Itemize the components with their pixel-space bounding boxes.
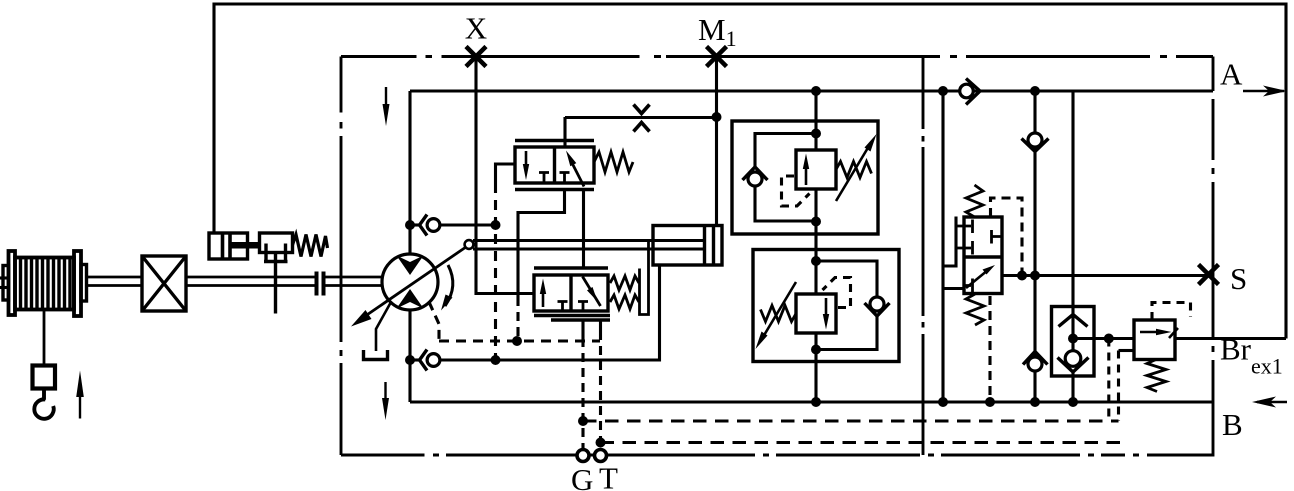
motor triangle bottom [397,289,424,309]
CB2 relief arrow [825,298,828,317]
junction lower check to B [1030,397,1040,407]
wire: motor A-side vertical [408,91,411,255]
wire: A to S vertical [1033,91,1036,133]
motor triangle top [397,256,424,276]
junction PV drain [985,397,995,407]
junction shuttle to B [1068,397,1078,407]
wire: V1 to V2 link [582,190,585,269]
PV drain dashed to B [988,296,991,402]
wire: T drain line (dashed) [601,441,1121,444]
shaft: drum to gearbox [87,276,143,279]
junction motor bottom [405,355,415,365]
check valve motor bottom: seat [420,350,428,371]
valve V1 spring [594,152,633,172]
enclosure: solid bottom-right corner [1160,402,1213,455]
reducing valve drain dashed [1117,351,1120,422]
check valve S-B: seat [1023,352,1048,365]
check valve motor top: seat [420,215,428,236]
PV pilot dashed [991,198,1023,276]
junction A to check column [1030,86,1040,96]
CB2 relief square [796,294,836,333]
brake shoe block [260,233,293,253]
junction pilot bottom [491,355,501,365]
shuttle check seat [1058,358,1089,373]
brake cylinder piston [221,233,225,259]
CB1 relief square [796,150,836,189]
valve V2 blocked port T left [558,302,568,312]
port G circle [577,450,589,462]
valve V1 top bar [515,139,594,142]
wire: M1 line [715,57,718,227]
CB1 relief arrow [805,166,808,185]
wire: V1 pilot dashed [494,183,497,360]
svg-text:B: B [1222,407,1243,442]
junction S to lower check [1030,271,1040,281]
wire: V1 pilot elbow [496,164,516,183]
enclosure: solid segment top right [1212,57,1215,92]
proportional valve body [964,217,1002,294]
arrow: flow down annotation lower [384,382,386,404]
enclosure: main valve block boundary bottom (dash-dot) [341,454,1213,457]
check valve on A line: ball [960,84,974,98]
wire: external brake-release loop top [214,4,1286,339]
reducing valve pilot dashed [1152,303,1191,321]
valve V2 spring lower [610,295,639,309]
valve V1 left position arrow [525,151,528,170]
winch drum body [15,258,74,310]
winch drum rope coils [21,258,71,310]
shaft: coupling to motor [325,276,383,279]
wire: motor bottom line to cylinder cap [440,265,660,360]
motor case drain left [376,302,391,351]
CB2 pilot dashed [823,278,851,308]
valve V2 left position arrow [542,288,545,307]
valve V1 body [515,147,594,183]
CB2 check branch wire [816,261,877,297]
junction reducing valve pilot [1104,334,1114,344]
hook block [33,366,56,389]
CB1 spring [836,162,872,178]
svg-text:X: X [465,11,487,46]
pilot sense dashed to G [1107,339,1110,422]
wire: shuttle internal vertical [1071,307,1074,358]
brake spring [293,235,328,257]
junction B-rail [938,397,948,407]
wire: main line through CB2 [814,333,817,402]
arrow: flow down annotation upper [385,87,387,110]
reducing valve drain elbow [1119,349,1135,352]
wire: V2 tank to T (dashed) [599,320,602,331]
brake push rod [229,242,261,249]
PV spring bottom [966,294,984,325]
valve V2 spring upper [610,276,639,290]
junction PV pilot on S line [1017,271,1027,281]
wire: right block rail [941,91,944,402]
wire: X pilot line [476,57,534,294]
valve V2 bottom bar 2 [551,318,610,321]
wire: S to B vertical [1033,276,1036,358]
coupling [315,272,319,296]
CB2 check seat [865,303,890,316]
rope to hook [43,310,46,366]
wire: V1 drain dashed [516,297,519,341]
wire: A line [410,89,1213,92]
junction motor top [405,220,415,230]
junction G branch [578,416,588,426]
valve V1 blocked port T right [560,173,570,184]
wire: G pilot line (dashed) [583,419,1119,422]
brake cylinder [209,233,248,259]
svg-text:G: G [571,462,593,491]
wire: throttle branch [565,116,717,119]
swash pivot circle [465,240,474,249]
winch drum flange right [74,251,81,316]
valve V2 top bar [534,266,608,269]
CB2 check ball [870,297,884,311]
svg-text:A: A [1220,57,1243,92]
port M1 cross [707,47,727,67]
wire: Br ex1 output [1175,337,1286,340]
junction drain [512,336,522,346]
PV bottom square port mark [964,279,973,293]
valve V2 blocked port T right [578,302,588,312]
junction CB1 bottom [811,217,821,227]
counterbalance block 1 box [732,121,878,234]
valve V1 right position arrow [571,160,585,187]
wire: V1 drain elbow [518,190,565,298]
wire: V2 drain to G (solid then dashed) [581,320,584,338]
wire: A to shuttle vertical [1071,91,1074,307]
valve V1 blocked port T left [539,173,549,184]
PV top square port left 1 [956,220,973,234]
junction CB2 top [811,256,821,266]
stroking cylinder rod [473,239,703,242]
shuttle box [1052,307,1095,377]
brake actuation pin [274,253,277,314]
CB1 pilot dashed [782,176,810,206]
check valve A-S: seat [1022,139,1049,152]
motor rotation arc arrow [445,265,453,306]
junction B-CB2 [811,397,821,407]
CB2 spring [761,306,797,322]
valve V1 bottom bar [515,188,594,191]
reducing valve adjust tick [1169,328,1178,338]
reducing valve body [1134,320,1175,360]
stroking cylinder piston [703,226,706,266]
enclosure: main valve block boundary top (dash-dot) [341,55,1213,58]
CB1 check ball [748,172,762,186]
junction CB1 top [811,129,821,139]
valve V2 body [534,275,608,311]
check valve S-B: ball [1028,357,1042,371]
PV spring top [966,185,983,217]
motor case drain right (dashed) [429,302,439,341]
wire: motor top check line [440,223,496,226]
shaft: gearbox to coupling [186,276,315,279]
winch drum hub left [3,266,9,301]
winch drum shaft stub left [0,276,9,279]
wire: main line through CB1 [814,91,817,150]
arrow: port A out [1243,90,1284,92]
junction A-rail [938,86,948,96]
valve V2 right position arrow [583,277,601,307]
junction pilot top [491,220,501,230]
winch drum flange left [9,251,16,315]
reducing valve spring [1147,360,1166,392]
shuttle check ball [1065,351,1081,367]
svg-text:T: T [599,461,618,491]
enclosure: main valve block boundary left (dash-dot) [340,57,343,456]
wire: throttle to valve V1 top [563,117,566,147]
proportional valve feed elbow upper [943,217,956,267]
shuttle poppet chevron [1059,315,1088,327]
check valve motor top: ball [427,219,440,232]
PV top square port right [992,230,1003,244]
counterbalance block 2 box [753,250,899,362]
drain line to G (dashed) [439,339,600,342]
junction A-CB1 [811,86,821,96]
gearbox [142,256,186,311]
throttle (orifice) [634,105,650,114]
wire: motor B-side vertical [408,310,411,403]
junction CB2 bottom [811,345,821,355]
svg-text:S: S [1230,261,1247,296]
winch drum hub right [81,265,87,302]
tank symbol [364,350,388,360]
junction M1-throttle [712,112,722,122]
feedback link bracket [640,239,649,315]
PV top square port left 2 [956,241,973,255]
port X cross [466,47,486,67]
stroking cylinder body [653,226,722,266]
wire: shuttle to reducing valve [1073,337,1134,340]
hook [34,389,53,419]
check valve on A line: seat [966,79,980,105]
check valve motor bottom: ball [427,354,440,367]
CB2 adjust arrow [763,282,796,337]
CB1 check seat [743,167,768,180]
brake clamp [264,244,267,262]
port T circle [595,450,607,462]
CB1 check branch wire [755,134,816,167]
arrow: port B in [1257,401,1287,403]
CB1 adjust arrow [836,146,869,201]
reducing valve arrow [1140,331,1163,334]
PV bottom square arrow [966,270,988,288]
port S cross [1199,265,1219,285]
motor variable-displacement arrow [358,247,466,321]
junction T branch [596,438,606,448]
enclosure: main valve block boundary right (dash-dot) [1212,99,1215,402]
junction shuttle out [1068,334,1078,344]
enclosure: section divider (dash-dot) [922,57,925,456]
check valve A-S: ball [1028,133,1042,147]
proportional valve feed lower [943,287,964,290]
valve V2 bottom bar 1 [534,314,610,317]
wire: B line [410,400,1213,403]
arrow: hoist up [79,396,81,419]
hydraulic motor circle [382,254,438,310]
wire: S line [1002,274,1210,277]
